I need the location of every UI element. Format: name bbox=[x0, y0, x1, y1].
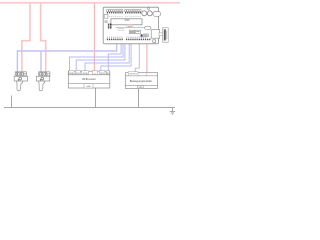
RFID pin MOSI bbox=[82, 71, 89, 75]
arduino ICSP header bbox=[108, 24, 112, 29]
arduino capacitor C1 bbox=[142, 11, 147, 16]
arduino reset label red bbox=[127, 25, 133, 27]
sensor S2 bbox=[36, 72, 50, 91]
wire blue arduino to RFID MOSI pin bbox=[85, 41, 129, 71]
arduino capacitor near usb bbox=[141, 34, 143, 37]
ground symbol bbox=[170, 108, 175, 115]
wire blue arduino to RFID IRQ pin bbox=[108, 41, 121, 71]
RFID GND cell bbox=[84, 84, 93, 88]
RFID reader box bbox=[68, 71, 110, 88]
arduino reset button bbox=[143, 34, 148, 37]
arduino bottom pin row left bbox=[107, 39, 123, 41]
svg-text:MOSI: MOSI bbox=[83, 73, 88, 75]
arduino edge stub to label bbox=[159, 33, 163, 36]
svg-text:IRQ: IRQ bbox=[106, 73, 110, 75]
motion sensor label bbox=[130, 79, 152, 83]
RFID pin SDA bbox=[69, 71, 74, 75]
arduino cap C3 bbox=[136, 30, 141, 33]
svg-text:RFID-Leser: RFID-Leser bbox=[82, 77, 96, 81]
arduino bottom header labels left bbox=[107, 37, 123, 39]
svg-text:Bewegungsmelder: Bewegungsmelder bbox=[130, 79, 152, 83]
arduino label box outside bbox=[163, 28, 169, 42]
arduino regulator bbox=[129, 30, 134, 33]
wire red drop to sensor S1 bbox=[22, 3, 30, 72]
arduino board U1 bbox=[103, 7, 158, 44]
wire red power top rail bbox=[0, 2, 180, 4]
arduino top pin labels silk bbox=[107, 16, 141, 17]
svg-text:GND: GND bbox=[86, 86, 91, 88]
arduino top pin row left bbox=[107, 12, 123, 14]
arduino bottom header labels right bbox=[126, 37, 146, 39]
wire red to RFID plus pin bbox=[93, 3, 95, 71]
RFID pin RST bbox=[99, 71, 105, 75]
arduino aux box left bbox=[105, 21, 107, 23]
svg-text:OUTPUT: OUTPUT bbox=[129, 74, 138, 76]
svg-text:GND: GND bbox=[138, 87, 143, 89]
wire gnd tick RFID bbox=[95, 88, 97, 108]
RFID pin IRQ bbox=[106, 71, 110, 75]
ground bus line bbox=[4, 107, 175, 109]
RFID pin SCK bbox=[75, 71, 80, 75]
arduino side header box bbox=[104, 14, 108, 18]
arduino bottom pin row right bbox=[126, 39, 150, 41]
arduino power jack bbox=[153, 12, 161, 17]
arduino IC ATmega bbox=[111, 19, 142, 25]
wire blue ground bus to sensors bbox=[17, 41, 116, 72]
arduino capacitor C2 bbox=[147, 11, 152, 16]
arduino top pin row right bbox=[125, 12, 141, 14]
wire blue arduino to RFID RST pin bbox=[101, 41, 131, 71]
motion sensor pin OUTPUT bbox=[128, 72, 138, 76]
motion sensor GND cell bbox=[138, 86, 144, 89]
wire blue arduino to motion sensor OUTPUT bbox=[135, 41, 139, 73]
wire blue arduino to RFID SDA pin bbox=[70, 41, 124, 71]
wire gnd tick left bbox=[11, 96, 13, 108]
wire blue arduino to RFID SCK pin bbox=[76, 41, 125, 71]
motion sensor pin plus bbox=[146, 74, 148, 77]
arduino small label A bbox=[118, 28, 124, 30]
motion sensor box bbox=[125, 73, 157, 89]
arduino top header labels right bbox=[125, 10, 141, 12]
arduino bottom black connector bbox=[153, 40, 156, 43]
sensor S1 bbox=[14, 72, 27, 91]
arduino usb connector bbox=[151, 30, 160, 39]
wire red from arduino 5V to motion sensor plus bbox=[146, 44, 148, 74]
arduino crystal bbox=[144, 26, 151, 29]
wire red drop to sensor S2 bbox=[41, 3, 46, 72]
wire gnd tick motion sensor bbox=[138, 88, 140, 107]
RFID label bbox=[82, 77, 96, 81]
arduino silk area bbox=[116, 26, 152, 28]
arduino mounting hole bbox=[147, 8, 149, 10]
RFID pin plus bbox=[93, 71, 98, 75]
arduino top header labels left bbox=[107, 10, 123, 12]
